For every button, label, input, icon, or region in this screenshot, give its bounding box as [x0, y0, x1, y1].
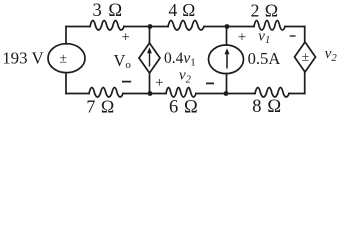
resistor 8ohm — [255, 88, 289, 98]
wire branch1 upper — [149, 27, 151, 44]
wire right branch lower — [304, 72, 306, 94]
wire left branch upper — [65, 27, 67, 44]
dependent current source 0.4v1 diamond — [139, 43, 160, 73]
wire 2ohm to top-right corner — [285, 26, 305, 28]
wire 6ohm to node D — [196, 93, 226, 95]
svg-text:v2: v2 — [325, 46, 338, 64]
node A junction dot — [148, 24, 153, 29]
svg-text:+: + — [155, 75, 163, 91]
svg-text:4 Ω: 4 Ω — [168, 0, 195, 20]
minus of Vo — [122, 81, 131, 83]
current source 0.5A — [209, 45, 244, 74]
minus of v1 — [290, 35, 296, 37]
resistor 6ohm — [166, 88, 196, 98]
wire branch2 upper — [226, 27, 228, 46]
svg-text:0.5A: 0.5A — [248, 49, 281, 68]
wire 7ohm to node B — [123, 93, 150, 95]
wire left branch lower — [65, 73, 67, 94]
node C junction dot — [225, 24, 230, 29]
wire node D to 8ohm — [226, 93, 255, 95]
wire 3ohm to node A — [124, 26, 150, 28]
wire top-left corner to 3ohm — [66, 26, 90, 28]
svg-text:v2: v2 — [179, 68, 192, 86]
wire branch2 lower — [226, 74, 228, 94]
resistor 7ohm — [89, 88, 123, 98]
resistor 3ohm — [90, 21, 124, 31]
svg-text:8 Ω: 8 Ω — [252, 97, 281, 116]
svg-text:2 Ω: 2 Ω — [250, 0, 278, 20]
svg-text:±: ± — [302, 50, 310, 65]
wire bottom-left corner to 7ohm — [66, 93, 89, 95]
resistor 4ohm — [168, 21, 204, 31]
wire branch1 lower — [149, 73, 151, 94]
node B junction dot — [148, 91, 153, 96]
svg-text:+: + — [121, 30, 129, 46]
wire node C to 2ohm — [227, 26, 254, 28]
svg-text:±: ± — [59, 51, 67, 66]
svg-text:193 V: 193 V — [2, 49, 44, 68]
dependent voltage source v2 diamond — [295, 42, 316, 72]
svg-text:7 Ω: 7 Ω — [86, 97, 114, 116]
svg-text:+: + — [238, 30, 246, 46]
arrow of current source 0.5A — [225, 48, 230, 68]
svg-text:Vo: Vo — [114, 51, 132, 71]
svg-text:0.4v1: 0.4v1 — [164, 50, 196, 69]
arrow of dependent current source 0.4v1 — [147, 47, 152, 66]
wire 4ohm to node C — [204, 26, 227, 28]
svg-text:v1: v1 — [258, 28, 270, 46]
wire node A to 4ohm — [150, 26, 168, 28]
wire right branch upper — [304, 27, 306, 43]
minus of v2 across 6ohm — [206, 82, 214, 84]
resistor 2ohm — [254, 21, 285, 31]
svg-text:3 Ω: 3 Ω — [92, 1, 123, 21]
svg-text:6 Ω: 6 Ω — [169, 97, 198, 116]
wire 8ohm to bottom-right corner — [289, 93, 305, 95]
node D junction dot — [224, 91, 229, 96]
voltage source 193V — [48, 44, 85, 73]
wire node B to 6ohm — [150, 93, 166, 95]
